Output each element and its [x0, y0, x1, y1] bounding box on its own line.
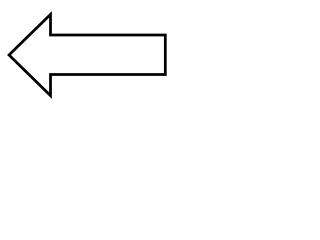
left arrow	[9, 14, 165, 95]
